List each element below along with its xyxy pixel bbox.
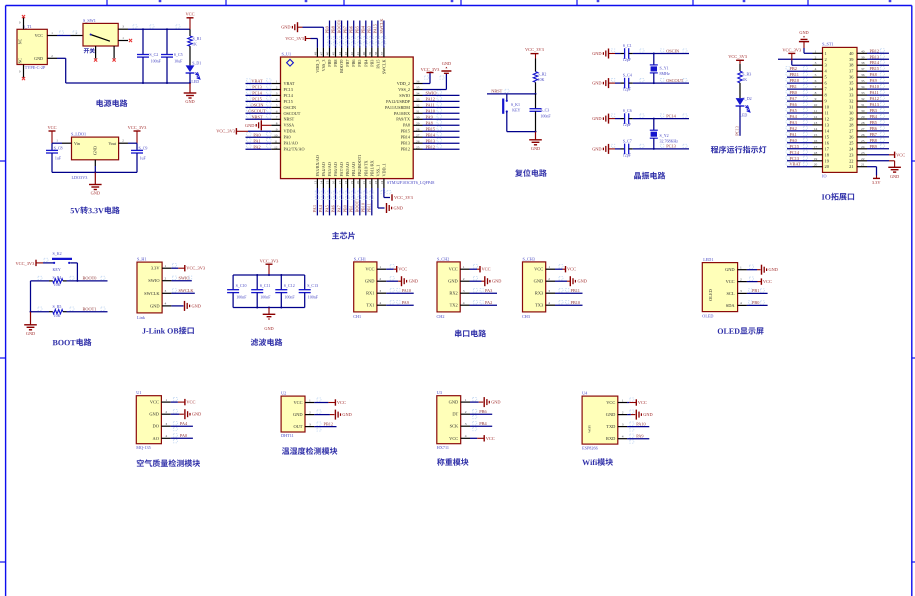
wire net PA4 xyxy=(322,188,324,215)
svg-text:PB12: PB12 xyxy=(401,147,410,152)
mcu VSSA ground xyxy=(260,120,262,130)
svg-text:PA10/RX: PA10/RX xyxy=(394,111,410,116)
mcu bottom pin 23 VSS_1 xyxy=(377,179,379,188)
svg-text:VCC: VCC xyxy=(35,33,44,38)
svg-text:GND: GND xyxy=(442,61,451,66)
title power circuit xyxy=(96,99,127,107)
svg-text:AO: AO xyxy=(153,436,159,441)
svg-text:VCC_3V3: VCC_3V3 xyxy=(16,261,36,266)
header left pin 8 xyxy=(813,94,823,96)
wire net PA10 xyxy=(627,426,649,428)
header left pin 14 xyxy=(813,130,823,132)
svg-text:PB10: PB10 xyxy=(361,203,366,213)
pin header ST1 xyxy=(823,47,858,172)
wire net PA9 xyxy=(423,118,460,120)
svg-text:VCC: VCC xyxy=(365,267,374,272)
wire net PA3 xyxy=(316,188,318,215)
svg-text:OSCIN: OSCIN xyxy=(284,105,297,110)
svg-text:PA0: PA0 xyxy=(253,132,260,137)
svg-text:Vin: Vin xyxy=(74,141,80,146)
capacitor S_C10 100nF xyxy=(232,275,234,290)
svg-text:2: 2 xyxy=(379,277,381,281)
wire net PA2 xyxy=(787,130,813,132)
mcu bottom pin 24 VDD_1 xyxy=(383,179,385,188)
capacitor C8 1uF xyxy=(51,143,53,150)
svg-text:U4: U4 xyxy=(582,391,588,396)
header left pin 13 xyxy=(813,124,823,126)
svg-text:GND: GND xyxy=(606,412,616,417)
wire net PA12 xyxy=(423,100,460,102)
svg-text:VCC: VCC xyxy=(337,400,346,405)
mcu top pin 40 PB4 xyxy=(365,48,367,57)
capacitor S_C7 12pF xyxy=(621,148,625,150)
border zone number fragments xyxy=(159,0,162,2)
serial pin 2 GND xyxy=(546,280,555,282)
mcu bottom pin 17 PA7/AO xyxy=(341,179,343,188)
wire net PA12 xyxy=(867,100,889,102)
wire net PB6 xyxy=(867,130,889,132)
mcu left pin 11 PA1/AO xyxy=(271,142,280,144)
svg-text:PB15: PB15 xyxy=(870,66,880,71)
mcu top pin 45 PB8 xyxy=(335,48,337,57)
mcu right pin 35 VSS_2 xyxy=(413,89,422,91)
jlink pin 2 SWIO xyxy=(162,280,171,282)
svg-text:S_C11: S_C11 xyxy=(260,283,271,288)
wire net PB3 xyxy=(371,21,373,48)
svg-text:33: 33 xyxy=(416,98,420,102)
svg-text:BOOT1: BOOT1 xyxy=(83,306,97,311)
wire net PB13 xyxy=(423,142,460,144)
wire net PB2 xyxy=(787,70,813,72)
svg-text:GND: GND xyxy=(592,116,601,121)
svg-text:S_C13: S_C13 xyxy=(307,283,318,288)
T1 bottom no-connect pin xyxy=(23,65,25,78)
svg-text:KEY: KEY xyxy=(512,108,520,113)
svg-text:S_R4: S_R4 xyxy=(53,275,62,280)
svg-text:100nF: 100nF xyxy=(260,295,271,300)
switch bottom pins no-connect xyxy=(95,46,97,59)
svg-text:35: 35 xyxy=(861,79,865,83)
serial pin 1 VCC xyxy=(460,268,469,270)
serial pin 4 TX2 xyxy=(460,304,469,306)
svg-text:VCC_3V3: VCC_3V3 xyxy=(394,195,414,200)
wire net PC15 xyxy=(787,148,813,150)
header right pin 21 xyxy=(857,166,867,168)
svg-text:NC: NC xyxy=(19,58,23,64)
header right pin 24 xyxy=(857,148,867,150)
header right pin 34 xyxy=(857,88,867,90)
svg-text:PA7: PA7 xyxy=(336,204,341,212)
svg-text:PB1: PB1 xyxy=(752,288,759,293)
ldo regulator LDO1 xyxy=(72,137,119,160)
svg-text:1: 1 xyxy=(465,398,467,402)
serial pin 4 TX3 xyxy=(546,304,555,306)
wire net PB11 xyxy=(371,188,373,215)
svg-text:34: 34 xyxy=(861,85,865,89)
svg-text:8MHz: 8MHz xyxy=(660,71,670,76)
svg-text:TX1: TX1 xyxy=(366,303,374,308)
svg-text:10K: 10K xyxy=(54,282,61,287)
svg-text:1K: 1K xyxy=(192,42,197,47)
wire net PA15 xyxy=(377,21,379,48)
mcu top pin 44 BOOT0 xyxy=(341,48,343,57)
wire net PB0 xyxy=(747,304,768,306)
svg-text:3: 3 xyxy=(815,61,817,65)
switch S_SW1 xyxy=(83,23,118,46)
module pin 3 SCK xyxy=(461,425,470,427)
wire net PB15 xyxy=(867,70,889,72)
svg-text:39: 39 xyxy=(861,55,865,59)
header left pin 16 xyxy=(813,142,823,144)
svg-text:31: 31 xyxy=(849,105,853,110)
wire net PB6 xyxy=(470,413,492,415)
svg-text:VBAT: VBAT xyxy=(790,162,802,167)
wire net OSCOUT xyxy=(246,112,272,114)
ldo ground bus wire xyxy=(94,160,96,166)
capacitor S_C6 12pF xyxy=(621,118,625,120)
svg-text:Link: Link xyxy=(137,315,146,320)
mcu left pin 1 VBAT xyxy=(271,83,280,85)
svg-text:GND: GND xyxy=(890,174,899,179)
svg-text:100nF: 100nF xyxy=(236,295,247,300)
svg-text:6: 6 xyxy=(276,109,278,113)
svg-text:DO: DO xyxy=(153,424,159,429)
svg-text:1: 1 xyxy=(815,49,817,53)
svg-text:PA0: PA0 xyxy=(284,135,291,140)
mcu bottom pin 18 PB0/AO xyxy=(347,179,349,188)
svg-text:4: 4 xyxy=(165,302,167,306)
mcu bottom pin 21 PB10/TX xyxy=(365,179,367,188)
svg-text:SWCLK: SWCLK xyxy=(381,60,386,75)
module VCC xyxy=(314,402,328,404)
svg-text:3: 3 xyxy=(463,289,465,293)
mcu top pin 47 VSS_3 xyxy=(322,48,324,57)
ground xyxy=(30,312,32,325)
svg-text:PC14: PC14 xyxy=(252,91,262,96)
title crystal circuit xyxy=(634,172,665,180)
wire net PA10 xyxy=(386,292,414,294)
svg-text:PB11: PB11 xyxy=(571,288,580,293)
svg-text:PA13: PA13 xyxy=(870,102,879,107)
svg-text:S_C9: S_C9 xyxy=(139,146,148,151)
svg-text:IO: IO xyxy=(822,174,826,179)
svg-text:1: 1 xyxy=(379,265,381,269)
svg-text:4: 4 xyxy=(463,301,465,305)
mcu left pin 6 OSCOUT xyxy=(271,112,280,114)
svg-text:S_D1: S_D1 xyxy=(192,61,201,66)
svg-text:SWIO: SWIO xyxy=(148,278,159,283)
svg-text:U2: U2 xyxy=(281,391,286,396)
title jlink ob interface xyxy=(142,327,193,335)
mcu top pin 43 PB7 xyxy=(347,48,349,57)
header left pin 18 xyxy=(813,154,823,156)
svg-text:33: 33 xyxy=(861,91,865,95)
mcu left pin 2 PC13 xyxy=(271,89,280,91)
capacitor S_C12 100nF xyxy=(280,275,282,290)
serial pin 4 TX1 xyxy=(377,304,386,306)
jlink pin 1 3.3V xyxy=(162,267,171,269)
svg-text:100nF: 100nF xyxy=(284,295,295,300)
ground xyxy=(94,172,96,184)
svg-text:PA15: PA15 xyxy=(373,24,378,33)
wire net PB7 xyxy=(867,136,889,138)
svg-text:PB3: PB3 xyxy=(369,60,374,67)
svg-text:PB6: PB6 xyxy=(349,25,354,33)
svg-text:VCC: VCC xyxy=(150,400,159,405)
led D1 xyxy=(186,65,195,72)
svg-text:10K: 10K xyxy=(54,313,61,318)
svg-text:22: 22 xyxy=(861,157,865,161)
svg-text:PA1/AO: PA1/AO xyxy=(284,141,298,146)
svg-text:PB0: PB0 xyxy=(790,90,797,95)
capacitor C3 100nF xyxy=(535,94,537,109)
header right pin 27 xyxy=(857,130,867,132)
wire net PA9 xyxy=(386,304,414,306)
svg-text:12pF: 12pF xyxy=(623,153,632,158)
svg-text:CH1: CH1 xyxy=(353,314,361,319)
svg-text:GND: GND xyxy=(394,206,403,211)
svg-text:8: 8 xyxy=(815,91,817,95)
svg-text:GND: GND xyxy=(409,279,418,284)
svg-text:TX2: TX2 xyxy=(450,303,458,308)
svg-text:1: 1 xyxy=(825,51,827,56)
svg-text:PB11/RX: PB11/RX xyxy=(369,160,374,176)
svg-text:23: 23 xyxy=(861,151,865,155)
svg-text:25: 25 xyxy=(416,145,420,149)
wire net PB9 xyxy=(867,148,889,150)
svg-text:1: 1 xyxy=(740,266,742,270)
svg-text:PA7/AO: PA7/AO xyxy=(339,162,344,176)
mcu left pin 10 PA0 xyxy=(271,136,280,138)
wire net PA0 xyxy=(171,437,193,439)
svg-text:OSCIN: OSCIN xyxy=(251,103,264,108)
svg-text:PB5: PB5 xyxy=(870,120,877,125)
svg-text:PC14: PC14 xyxy=(790,150,800,155)
usb connector T1 xyxy=(17,29,47,64)
svg-text:PA10: PA10 xyxy=(402,288,411,293)
svg-text:PA5: PA5 xyxy=(324,205,329,212)
wire vcc to ldo pin1 xyxy=(52,142,62,144)
svg-text:OLED: OLED xyxy=(702,314,713,319)
wire ldo pin2 to vcc3v3 xyxy=(119,142,128,144)
svg-text:2: 2 xyxy=(165,277,167,281)
wire net PB14 xyxy=(867,64,889,66)
oled pin 1 GND xyxy=(738,269,747,271)
svg-text:VCC: VCC xyxy=(449,267,458,272)
svg-text:4: 4 xyxy=(165,434,167,438)
svg-text:PB1: PB1 xyxy=(790,84,797,89)
svg-text:S_C2: S_C2 xyxy=(149,52,158,57)
svg-text:VSS_1: VSS_1 xyxy=(375,165,380,177)
svg-text:Vout: Vout xyxy=(108,141,117,146)
svg-text:3.3V: 3.3V xyxy=(151,266,160,271)
svg-text:24: 24 xyxy=(380,180,384,184)
svg-text:VCC_3V3: VCC_3V3 xyxy=(260,258,280,263)
svg-text:PA4: PA4 xyxy=(180,421,188,426)
wire net PA11 xyxy=(423,106,460,108)
svg-text:VCC_3V3: VCC_3V3 xyxy=(216,129,236,134)
wire net PB11 xyxy=(787,76,813,78)
svg-text:27: 27 xyxy=(416,133,420,137)
mcu left pin 3 PC14 xyxy=(271,94,280,96)
svg-text:PB14: PB14 xyxy=(401,135,411,140)
svg-text:36: 36 xyxy=(416,80,420,84)
wire net PC13 down xyxy=(739,106,741,136)
header left pin 4 xyxy=(813,70,823,72)
svg-text:PC15: PC15 xyxy=(252,97,262,102)
wire net OSCIN xyxy=(633,53,689,55)
svg-text:22: 22 xyxy=(849,158,853,163)
wire net PC13 xyxy=(633,148,689,150)
svg-text:39: 39 xyxy=(368,52,372,56)
module pin 3 TXD xyxy=(618,426,627,428)
svg-text:PB8: PB8 xyxy=(870,138,877,143)
svg-text:PB9: PB9 xyxy=(870,144,877,149)
svg-text:1: 1 xyxy=(622,398,624,402)
switch pin 3 wire to VCC bus xyxy=(118,28,128,30)
mcu bottom pin 14 PA4/AO xyxy=(322,179,324,188)
header left pin 5 xyxy=(813,76,823,78)
ground crystal row 3 xyxy=(608,114,610,124)
svg-text:VCC: VCC xyxy=(726,279,735,284)
svg-text:PC14: PC14 xyxy=(666,113,676,118)
module GND xyxy=(470,401,479,403)
wire T1 VCC to switch xyxy=(47,35,57,37)
svg-text:PB4: PB4 xyxy=(361,25,366,33)
svg-text:28: 28 xyxy=(861,121,865,125)
svg-text:PB4: PB4 xyxy=(870,114,878,119)
wire net PA3 xyxy=(470,292,498,294)
svg-text:PC14: PC14 xyxy=(284,93,294,98)
svg-text:GND: GND xyxy=(149,412,159,417)
svg-text:SWIO: SWIO xyxy=(179,276,190,281)
wire net PA7 xyxy=(787,100,813,102)
mcu VDD_3 to VCC_3V3 xyxy=(304,36,306,41)
svg-text:PA9: PA9 xyxy=(636,434,643,439)
wire net PA4 xyxy=(787,118,813,120)
svg-text:28: 28 xyxy=(416,127,420,131)
mcu right pin 33 PA12/USBDP xyxy=(413,100,422,102)
wire net PA6 xyxy=(787,106,813,108)
wire net PA9 xyxy=(867,82,889,84)
svg-text:4: 4 xyxy=(740,301,742,305)
wire led to ground bus xyxy=(189,73,191,83)
svg-text:PB13: PB13 xyxy=(870,54,880,59)
svg-text:GND: GND xyxy=(26,331,35,336)
wire net VBAT xyxy=(787,166,813,168)
svg-text:PC13: PC13 xyxy=(735,126,740,136)
net NRST wire xyxy=(487,93,536,95)
mcu VDD_2 to VCC_3V3 xyxy=(423,83,431,85)
svg-text:4: 4 xyxy=(276,98,278,102)
connector H1 jlink xyxy=(137,262,162,313)
svg-text:12: 12 xyxy=(274,145,278,149)
module pin 2 GND xyxy=(161,413,170,415)
svg-text:PB14: PB14 xyxy=(870,60,880,65)
serial pin 1 VCC xyxy=(377,268,386,270)
svg-text:21: 21 xyxy=(849,164,853,169)
svg-text:VCC_3V3: VCC_3V3 xyxy=(186,266,206,271)
wire net PC14 xyxy=(246,94,272,96)
header left pin 7 xyxy=(813,88,823,90)
key switch K2 xyxy=(52,258,72,260)
svg-text:S_H1: S_H1 xyxy=(137,257,147,262)
svg-text:2: 2 xyxy=(740,277,742,281)
module GND xyxy=(314,414,330,416)
mcu U1 STM32F103C8T6 xyxy=(281,57,414,179)
svg-text:PB2: PB2 xyxy=(790,66,797,71)
svg-text:5: 5 xyxy=(815,73,817,77)
header left pin 2 xyxy=(813,58,823,60)
svg-text:TX3: TX3 xyxy=(535,303,544,308)
wire net PA4 xyxy=(171,425,193,427)
svg-text:VCC: VCC xyxy=(47,125,56,130)
svg-text:29: 29 xyxy=(416,121,420,125)
wire net PA2 xyxy=(246,148,272,150)
svg-text:32: 32 xyxy=(416,104,420,108)
svg-text:VCC: VCC xyxy=(606,400,615,405)
svg-text:10K: 10K xyxy=(538,77,545,82)
wire net PA6 xyxy=(335,188,337,215)
mcu right pin 34 SWIO xyxy=(413,94,422,96)
svg-text:RX3: RX3 xyxy=(535,291,544,296)
svg-text:14: 14 xyxy=(814,127,818,131)
mcu bottom pin 20 PB2/BOOT1 xyxy=(359,179,361,188)
svg-text:38: 38 xyxy=(861,61,865,65)
svg-text:S_C8: S_C8 xyxy=(54,146,63,151)
svg-text:PC13: PC13 xyxy=(252,85,262,90)
svg-text:GND: GND xyxy=(725,267,735,272)
svg-text:PB0: PB0 xyxy=(752,300,759,305)
header right pin 40 xyxy=(857,52,867,54)
svg-text:7: 7 xyxy=(815,85,817,89)
connector CH3 xyxy=(523,262,546,312)
header right pin 37 xyxy=(857,70,867,72)
connector CH2 xyxy=(437,262,460,312)
svg-text:WIFI: WIFI xyxy=(587,424,591,432)
svg-text:VCC_3V3: VCC_3V3 xyxy=(285,36,305,41)
svg-text:3: 3 xyxy=(465,422,467,426)
key switch K1 xyxy=(506,94,508,101)
header right pin 38 xyxy=(857,64,867,66)
oled GND xyxy=(747,269,757,271)
svg-text:GND: GND xyxy=(643,412,652,417)
header right pin 32 xyxy=(857,100,867,102)
svg-text:PA9: PA9 xyxy=(402,300,409,305)
wire net PA0 xyxy=(246,136,272,138)
power net VCC ldo input xyxy=(49,130,56,132)
svg-text:PB7: PB7 xyxy=(870,132,878,137)
svg-text:2: 2 xyxy=(309,410,311,414)
wire net PB8 xyxy=(335,21,337,48)
serial VCC xyxy=(470,268,478,270)
svg-text:22: 22 xyxy=(368,180,372,184)
header right pin 36 xyxy=(857,76,867,78)
serial pin 2 GND xyxy=(460,280,469,282)
ground xyxy=(268,308,270,315)
module pin 4 VCC xyxy=(461,437,470,439)
svg-text:PB0: PB0 xyxy=(342,205,347,212)
svg-text:NRST: NRST xyxy=(491,89,502,94)
wire net PB7 xyxy=(347,21,349,48)
svg-text:PA6/AO: PA6/AO xyxy=(333,162,338,176)
mcu right pin 36 VDD_2 xyxy=(413,83,422,85)
svg-text:PB8: PB8 xyxy=(330,26,335,33)
switch pin 1 stub xyxy=(118,40,128,42)
header right pin 23 xyxy=(857,154,867,156)
sheet border frame xyxy=(6,5,912,7)
svg-text:GND: GND xyxy=(245,123,254,128)
